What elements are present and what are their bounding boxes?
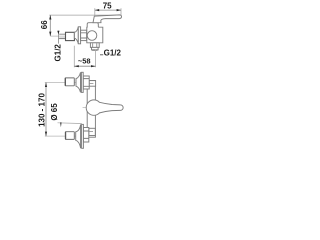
- svg-text:G1/2: G1/2: [104, 48, 122, 57]
- svg-text:G1/2: G1/2: [53, 44, 62, 62]
- svg-text:75: 75: [103, 2, 112, 11]
- svg-text:66: 66: [40, 20, 49, 29]
- svg-text:130 - 170: 130 - 170: [38, 93, 47, 127]
- svg-text:Ø 65: Ø 65: [50, 103, 59, 121]
- svg-text:~58: ~58: [78, 57, 91, 66]
